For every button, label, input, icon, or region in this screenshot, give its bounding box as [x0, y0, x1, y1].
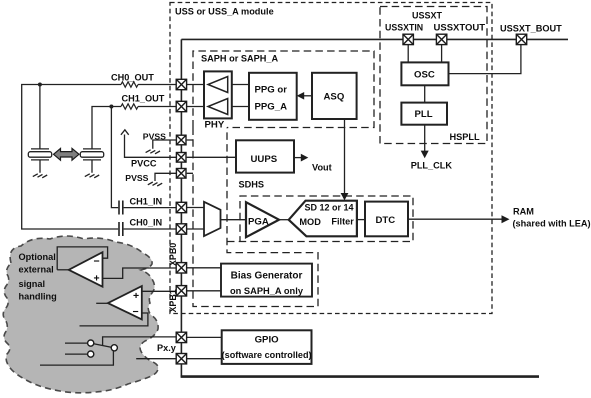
- svg-text:CH1_OUT: CH1_OUT: [122, 94, 165, 104]
- svg-text:XPB0: XPB0: [168, 243, 178, 266]
- pad PVSS 2: [176, 169, 186, 179]
- svg-text:PGA: PGA: [248, 216, 269, 227]
- wire PLL_CLK: [424, 125, 426, 151]
- wire ASQ to PPG: [303, 95, 312, 97]
- switch contact C: [88, 351, 94, 357]
- svg-text:UUPS: UUPS: [251, 154, 278, 165]
- wire PGA to SD mod: [279, 219, 289, 221]
- arrowhead Vout: [301, 154, 309, 162]
- arrowhead ASQ to PPG: [297, 92, 305, 100]
- box PLL: [401, 103, 447, 125]
- wire U1 plus input from XPB0: [103, 268, 177, 278]
- wire PVSS right stubs: [187, 140, 193, 173]
- wire DTC to RAM: [408, 218, 502, 220]
- node junction CH1_OUT: [109, 105, 113, 109]
- wire U2 feedback: [80, 313, 148, 326]
- box DTC: [365, 202, 408, 237]
- pads: [176, 34, 527, 364]
- dashed box SAPH or SAPH_A: [193, 51, 374, 128]
- transducer XT1: [28, 149, 51, 173]
- dashed region bias/left spine: [193, 128, 318, 307]
- box PHY: [204, 71, 232, 118]
- wire PVCC: [125, 135, 237, 158]
- svg-text:on SAPH_A only: on SAPH_A only: [230, 286, 304, 296]
- wire bottom bus thick: [181, 375, 539, 378]
- wire U2 output: [96, 302, 108, 304]
- pad XPB1: [176, 286, 186, 296]
- svg-text:PPG_A: PPG_A: [255, 102, 288, 113]
- svg-text:XPB1: XPB1: [168, 289, 178, 312]
- wire SD to DTC: [357, 219, 365, 221]
- svg-text:OSC: OSC: [414, 70, 435, 81]
- op-amp U2: [108, 286, 142, 319]
- ground PVSS2: [148, 182, 162, 186]
- svg-text:PPG or: PPG or: [255, 85, 288, 96]
- arrow PVCC up: [121, 130, 129, 135]
- svg-text:PVSS: PVSS: [125, 173, 148, 183]
- svg-text:DTC: DTC: [376, 215, 396, 226]
- svg-text:SD 12 or 14: SD 12 or 14: [305, 202, 354, 212]
- switch lever: [94, 344, 112, 348]
- wire pad bus vertical: [180, 39, 182, 376]
- svg-text:ASQ: ASQ: [324, 92, 345, 103]
- arrowhead ASQ down: [341, 193, 349, 200]
- wire mux to PGA: [221, 219, 247, 221]
- wire Px.y2 into cloud: [136, 358, 176, 360]
- wire Px.y1 to GPIO: [187, 336, 222, 338]
- arrowhead PLL_CLK: [421, 151, 429, 159]
- svg-text:PVSS: PVSS: [143, 131, 166, 141]
- wire CH0_IN to mux: [187, 228, 204, 230]
- wire Px.y1 into cloud: [103, 337, 177, 346]
- pad CH1_OUT: [176, 101, 186, 111]
- svg-text:USS or USS_A module: USS or USS_A module: [175, 7, 274, 17]
- dashed box USS or USS_A module: [170, 3, 492, 314]
- wire PHY to PPG upper: [232, 84, 249, 86]
- node junction CH0_OUT: [38, 83, 42, 87]
- switch contact B: [111, 345, 117, 351]
- box Bias Generator: [221, 264, 312, 297]
- pad CH1_IN: [176, 202, 186, 212]
- switch contact A: [88, 340, 94, 346]
- svg-text:USSXTIN: USSXTIN: [385, 23, 423, 33]
- svg-text:Px.y: Px.y: [157, 343, 177, 353]
- wire PVSS2: [155, 173, 176, 181]
- svg-text:SAPH or SAPH_A: SAPH or SAPH_A: [201, 53, 278, 63]
- buffer triangle PHY upper: [208, 77, 228, 93]
- svg-text:USSXTOUT: USSXTOUT: [434, 23, 486, 34]
- svg-text:RAM: RAM: [513, 207, 534, 217]
- pad CH0_IN: [176, 224, 186, 234]
- svg-text:PLL: PLL: [415, 109, 433, 120]
- svg-text:SDHS: SDHS: [239, 180, 265, 190]
- box OSC: [401, 62, 448, 85]
- wire OSC to PLL: [424, 85, 426, 102]
- wire XPB1 to bias: [187, 290, 221, 292]
- resistor R on CH1_OUT: [121, 104, 138, 109]
- svg-text:USSXT_BOUT: USSXT_BOUT: [500, 24, 562, 34]
- box PPG: [249, 73, 297, 120]
- svg-text:+: +: [133, 290, 139, 302]
- SD modulator pentagon: [289, 201, 357, 237]
- ground for XT1: [33, 174, 47, 178]
- wire XPB0 to bias: [187, 267, 221, 269]
- box GPIO: [222, 330, 312, 364]
- wire CH1_OUT left: [92, 107, 176, 208]
- pad Px.y 2: [176, 354, 186, 364]
- svg-text:PLL_CLK: PLL_CLK: [411, 161, 453, 171]
- cloud Optional external signal handling: [3, 236, 158, 393]
- svg-text:HSPLL: HSPLL: [450, 132, 481, 142]
- pad PVCC: [176, 153, 186, 163]
- svg-text:−: −: [133, 306, 139, 318]
- wire PVSS1: [153, 140, 176, 149]
- arrowhead RAM: [502, 215, 510, 223]
- pad USSXT_BOUT: [516, 34, 526, 44]
- pad USSXTOUT: [436, 34, 446, 44]
- box UUPS: [236, 140, 294, 172]
- svg-text:CH0_OUT: CH0_OUT: [111, 73, 154, 83]
- svg-text:Bias Generator: Bias Generator: [231, 270, 303, 281]
- svg-text:USSXT: USSXT: [412, 11, 443, 21]
- double arrow between transducers: [54, 148, 80, 160]
- wire OSC to USSXT_BOUT: [449, 45, 521, 74]
- svg-text:handling: handling: [19, 291, 57, 301]
- svg-text:(shared with LEA): (shared with LEA): [513, 219, 591, 229]
- wire CH0_OUT left: [22, 85, 177, 230]
- pad PVSS: [176, 135, 186, 145]
- resistor R on CH0_OUT: [121, 82, 138, 87]
- wire PHY to PPG lower: [232, 106, 249, 108]
- wire U1 feedback: [57, 247, 107, 270]
- op-amp U1: [69, 252, 103, 287]
- pad XPB0: [176, 263, 186, 273]
- wire Px.y2 to GPIO: [187, 358, 222, 360]
- capacitor C on CH1_IN: [119, 201, 123, 215]
- transducer XT2: [80, 149, 103, 173]
- svg-text:Filter: Filter: [331, 217, 354, 227]
- wire ASQ down to SD mod: [344, 119, 346, 194]
- pad CH0_OUT: [176, 79, 186, 89]
- dashed box SDHS: [227, 196, 413, 242]
- svg-text:(software controlled): (software controlled): [222, 350, 312, 360]
- wire CH1_OUT to PHY: [187, 106, 204, 108]
- svg-text:CH1_IN: CH1_IN: [130, 196, 163, 206]
- svg-text:Vout: Vout: [312, 162, 332, 172]
- ground PVSS1: [146, 150, 160, 154]
- wire CH1_IN to mux: [187, 207, 204, 209]
- svg-text:Optional: Optional: [19, 252, 56, 262]
- svg-text:external: external: [19, 265, 54, 275]
- wire U1 output: [57, 269, 68, 271]
- wire U2 plus input from XPB1: [142, 290, 176, 292]
- pad Px.y 1: [176, 332, 186, 342]
- box ASQ: [312, 73, 357, 119]
- svg-text:−: −: [94, 256, 100, 268]
- mux trapezoid: [204, 202, 221, 236]
- wire main top line to USSXT pads: [181, 38, 568, 40]
- wire Vout: [294, 157, 301, 159]
- svg-text:GPIO: GPIO: [255, 334, 280, 345]
- pad USSXTIN: [403, 34, 413, 44]
- svg-text:signal: signal: [19, 279, 46, 289]
- svg-text:+: +: [94, 273, 100, 285]
- ground for XT2: [85, 174, 99, 178]
- svg-text:MOD: MOD: [299, 217, 321, 227]
- wire CH0_OUT to PHY: [187, 84, 204, 86]
- dashed box USSXT: [380, 7, 487, 144]
- svg-text:CH0_IN: CH0_IN: [130, 218, 163, 228]
- wire USSXTIN to OSC: [407, 45, 409, 63]
- wire USSXTOUT to OSC: [441, 45, 443, 63]
- wire transducer1 lead: [39, 85, 41, 149]
- amplifier PGA: [246, 202, 279, 237]
- svg-text:PVCC: PVCC: [131, 159, 157, 169]
- switch wires: [40, 343, 113, 365]
- svg-text:PHY: PHY: [205, 119, 225, 130]
- buffer triangle PHY lower: [208, 99, 228, 115]
- capacitor C on CH0_IN: [119, 222, 123, 236]
